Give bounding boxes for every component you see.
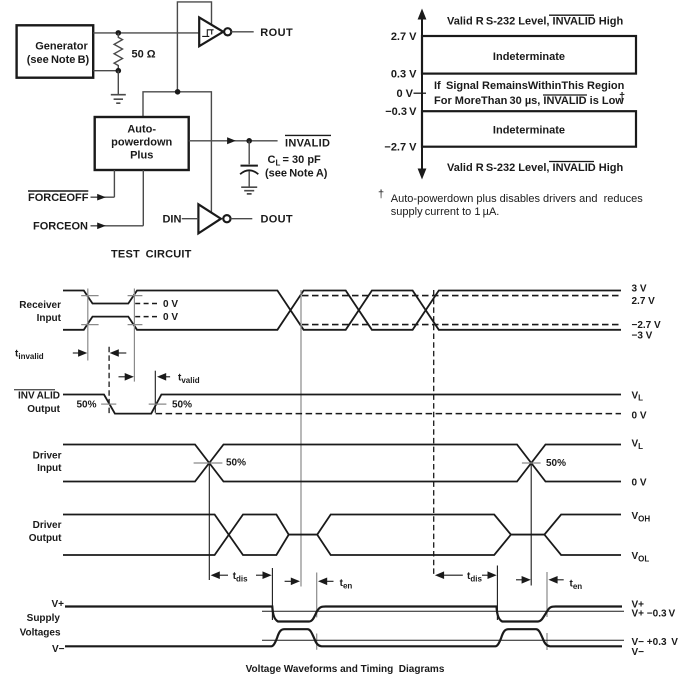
svg-text:−2.7 V: −2.7 V bbox=[384, 141, 417, 153]
wire U3 to DOUT bbox=[230, 218, 252, 220]
dashed -2.7V level bbox=[302, 324, 621, 326]
svg-text:ten: ten bbox=[340, 578, 353, 591]
bar at V+ fall first bbox=[271, 568, 273, 620]
svg-text:2.7 V: 2.7 V bbox=[632, 296, 656, 307]
svg-text:Output: Output bbox=[29, 533, 62, 544]
svg-text:tdis: tdis bbox=[467, 571, 482, 584]
svg-text:For MoreThan 30 µs, INVALID is: For MoreThan 30 µs, INVALID is Low bbox=[434, 95, 624, 107]
bar at V+ rise second bbox=[546, 572, 548, 650]
wire generator top to U1 input bbox=[93, 32, 199, 34]
svg-text:VOH: VOH bbox=[632, 511, 651, 523]
wire feedback supply to U1 top bbox=[177, 2, 211, 92]
junction node APD supply bbox=[175, 89, 181, 95]
svg-text:Valid R S-232 Level, INVALID H: Valid R S-232 Level, INVALID High bbox=[447, 162, 623, 174]
svg-text:(see Note B): (see Note B) bbox=[27, 54, 90, 66]
svg-text:Auto-: Auto- bbox=[127, 124, 156, 136]
wire APD output to INVALID bbox=[189, 140, 278, 142]
bar at V+ rise first bbox=[316, 573, 318, 650]
svg-text:tvalid: tvalid bbox=[178, 372, 200, 385]
svg-text:V−: V− bbox=[632, 647, 645, 658]
receiver input waveform line A bbox=[63, 291, 621, 330]
indeterminate region box bottom bbox=[422, 111, 636, 147]
gray reference line at first transition bbox=[87, 289, 89, 361]
svg-text:VL: VL bbox=[632, 390, 644, 402]
label INVALID Output (overlined) bbox=[14, 390, 61, 415]
thin reference from X2 down bbox=[530, 464, 532, 586]
schmitt inverter U1 bbox=[199, 17, 231, 46]
svg-text:tinvalid: tinvalid bbox=[15, 349, 44, 362]
gray 50% tick falling bbox=[101, 403, 116, 405]
svg-text:0 V: 0 V bbox=[632, 477, 647, 488]
svg-text:Driver: Driver bbox=[33, 520, 62, 531]
receiver input waveform line B bbox=[63, 291, 621, 330]
svg-text:2.7 V: 2.7 V bbox=[391, 31, 417, 43]
svg-text:FORCEOFF: FORCEOFF bbox=[28, 192, 89, 204]
V+ supply waveform bbox=[65, 607, 622, 622]
gray 50% tick driver input X1 bbox=[194, 462, 223, 464]
svg-text:Input: Input bbox=[37, 313, 62, 324]
svg-text:TEST CIRCUIT: TEST CIRCUIT bbox=[111, 248, 192, 260]
svg-text:0 V: 0 V bbox=[163, 312, 178, 323]
svg-text:3 V: 3 V bbox=[632, 284, 647, 295]
auto-powerdown plus block U2 bbox=[95, 117, 189, 170]
svg-text:V+: V+ bbox=[51, 599, 64, 610]
svg-text:Generator: Generator bbox=[35, 40, 88, 52]
junction top node bbox=[116, 30, 122, 36]
svg-text:Indeterminate: Indeterminate bbox=[493, 124, 565, 136]
net label INVALID (overlined) bbox=[285, 134, 331, 136]
dashed reference line t-invalid bbox=[108, 347, 110, 414]
svg-text:V−: V− bbox=[52, 644, 65, 655]
t-en second arrows bbox=[516, 576, 564, 584]
footnote dagger auto-powerdown bbox=[378, 189, 643, 219]
svg-text:50 Ω: 50 Ω bbox=[132, 49, 156, 61]
svg-text:INVALID: INVALID bbox=[285, 138, 330, 150]
svg-text:INV ALID: INV ALID bbox=[18, 391, 60, 402]
svg-text:0 V: 0 V bbox=[396, 88, 413, 100]
gray 50% tick driver input X2 bbox=[522, 462, 541, 464]
wire FORCEON with arrowhead bbox=[91, 225, 144, 227]
junction resistor bottom node bbox=[116, 68, 122, 74]
svg-text:†: † bbox=[619, 91, 625, 103]
thin reference line at invalid rise bbox=[154, 371, 156, 413]
gray 50% tick rising bbox=[149, 403, 167, 405]
junction node INVALID bbox=[246, 138, 252, 144]
driver input waveform line B bbox=[63, 445, 621, 482]
svg-text:tdis: tdis bbox=[233, 571, 248, 584]
svg-text:Voltages: Voltages bbox=[20, 628, 61, 639]
svg-text:ROUT: ROUT bbox=[260, 27, 293, 39]
svg-text:Output: Output bbox=[27, 404, 60, 415]
svg-text:DOUT: DOUT bbox=[261, 214, 293, 226]
V- supply waveform bbox=[65, 629, 622, 646]
svg-text:50%: 50% bbox=[546, 458, 566, 469]
t-dis first arrows bbox=[211, 571, 272, 579]
inverter U3 DIN bbox=[198, 204, 230, 233]
driver input waveform line A bbox=[63, 445, 621, 482]
svg-text:50%: 50% bbox=[226, 458, 246, 469]
invalid output waveform bbox=[63, 395, 621, 414]
title valid RS-232 level top bbox=[447, 15, 623, 27]
t-dis second arrows bbox=[435, 571, 497, 579]
svg-text:ten: ten bbox=[570, 578, 583, 591]
region note line 2 with INVALID overline and dagger bbox=[434, 91, 625, 107]
svg-text:Plus: Plus bbox=[130, 150, 153, 162]
svg-text:Driver: Driver bbox=[33, 450, 62, 461]
dashed 2.7V level bbox=[302, 295, 621, 297]
svg-text:Valid R S-232 Level, INVALID H: Valid R S-232 Level, INVALID High bbox=[447, 16, 623, 28]
svg-text:†: † bbox=[378, 189, 384, 201]
resistor R1 50 ohm bbox=[114, 33, 122, 71]
generator box G1 bbox=[17, 25, 94, 77]
svg-text:Voltage Waveforms and Timing: Voltage Waveforms and Timing Diagrams bbox=[246, 664, 445, 675]
svg-text:If Signal RemainsWithinThis R: If Signal RemainsWithinThis Region bbox=[434, 80, 625, 92]
axis tick 0 V bbox=[414, 92, 427, 94]
dashed long reference line bbox=[433, 290, 435, 576]
svg-text:supply current to 1 µA.: supply current to 1 µA. bbox=[391, 206, 500, 218]
svg-text:Receiver: Receiver bbox=[19, 300, 61, 311]
thin V+ -0.3V level bbox=[262, 610, 624, 612]
svg-text:Supply: Supply bbox=[27, 613, 61, 624]
svg-text:DIN: DIN bbox=[162, 214, 181, 226]
wire U1 output to ROUT bbox=[231, 31, 254, 33]
gray long reference line bbox=[300, 290, 302, 587]
svg-text:VL: VL bbox=[632, 439, 644, 451]
svg-text:Auto-powerdown plus disables d: Auto-powerdown plus disables drivers and… bbox=[391, 193, 643, 205]
bar at V+ fall second bbox=[496, 566, 498, 621]
t-valid arrows bbox=[119, 373, 171, 381]
svg-text:CL = 30 pF: CL = 30 pF bbox=[268, 154, 322, 168]
svg-text:50%: 50% bbox=[77, 400, 97, 411]
dashed 0V stubs bbox=[135, 304, 158, 317]
svg-text:0 V: 0 V bbox=[632, 410, 647, 421]
gray reference line at second transition bbox=[133, 289, 135, 382]
voltage axis bbox=[418, 9, 427, 180]
svg-text:Indeterminate: Indeterminate bbox=[493, 51, 565, 63]
svg-text:0 V: 0 V bbox=[163, 299, 178, 310]
ground GND2 bbox=[241, 187, 257, 194]
wire DIN to U3 bbox=[182, 218, 199, 220]
dashed 0V level invalid bbox=[156, 413, 621, 415]
indeterminate region box top bbox=[422, 36, 636, 74]
svg-text:V+ −0.3 V: V+ −0.3 V bbox=[632, 609, 676, 620]
ground GND1 bbox=[111, 95, 126, 104]
svg-text:−0.3 V: −0.3 V bbox=[385, 106, 417, 118]
wire node row to APD and U3 bbox=[143, 92, 211, 213]
t-invalid arrows bbox=[73, 349, 127, 357]
t-en first arrows bbox=[285, 578, 334, 586]
svg-text:(see Note A): (see Note A) bbox=[265, 168, 328, 180]
driver output waveform line A bbox=[63, 515, 621, 556]
title valid RS-232 level bottom bbox=[447, 162, 623, 174]
thin reference from X1 down bbox=[208, 464, 210, 580]
svg-text:−3 V: −3 V bbox=[632, 330, 653, 341]
wire to ground bbox=[117, 71, 119, 95]
svg-text:0.3 V: 0.3 V bbox=[391, 69, 417, 81]
gray ticks at 2.7V crossings bbox=[81, 296, 142, 325]
wire generator bottom to resistor bbox=[93, 70, 118, 72]
capacitor CL bbox=[240, 141, 258, 187]
net label FORCEOFF (overlined) bbox=[28, 190, 88, 192]
svg-text:powerdown: powerdown bbox=[111, 137, 172, 149]
driver output waveform line B bbox=[63, 515, 621, 556]
wire FORCEOFF with arrowhead bbox=[91, 196, 115, 198]
svg-text:FORCEON: FORCEON bbox=[33, 221, 88, 233]
thin V- +0.3V level bbox=[262, 639, 624, 641]
svg-text:VOL: VOL bbox=[632, 551, 650, 563]
svg-text:50%: 50% bbox=[172, 400, 192, 411]
svg-text:Input: Input bbox=[37, 463, 62, 474]
arrowhead on INVALID wire bbox=[227, 137, 236, 144]
